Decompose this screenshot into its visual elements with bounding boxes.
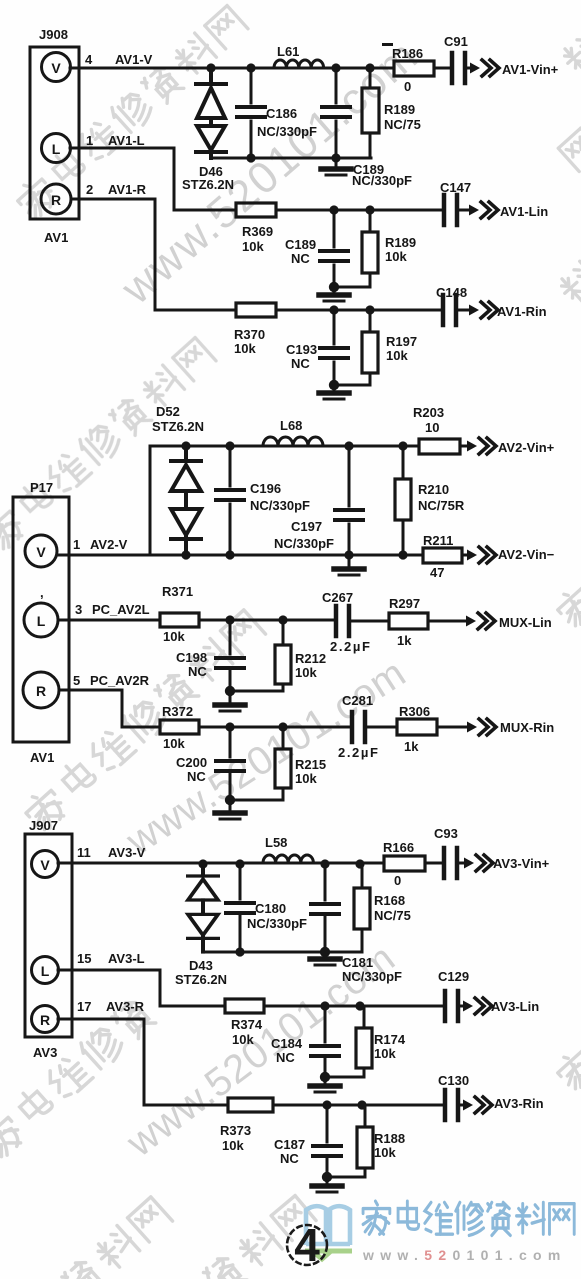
svg-text:10k: 10k — [374, 1145, 396, 1160]
arrow AV3-Lin — [463, 998, 492, 1014]
wire C181 branch — [324, 863, 327, 952]
resistor R189 NC/75 — [362, 88, 379, 133]
wire R189b branch — [334, 210, 370, 287]
ground AV1-R — [333, 385, 336, 390]
svg-text:3: 3 — [75, 602, 82, 617]
wire C200 branch — [229, 727, 232, 800]
svg-text:R203: R203 — [413, 405, 444, 420]
resistor R212 — [275, 645, 291, 684]
svg-text:AV3-L: AV3-L — [108, 951, 145, 966]
watermark hanzi run top-left — [13, 4, 249, 222]
svg-text:R371: R371 — [162, 584, 193, 599]
svg-text:0: 0 — [394, 873, 401, 888]
capacitor C148 — [443, 295, 456, 325]
svg-text:R373: R373 — [220, 1123, 251, 1138]
watermark hanzi right edge top — [556, 233, 581, 307]
svg-text:P17: P17 — [30, 480, 53, 495]
capacitor C180 — [226, 903, 254, 913]
wire C184 branch — [324, 1006, 327, 1077]
wire AV1-L pin1 — [70, 148, 236, 210]
scan speck dash — [382, 43, 393, 46]
resistor R168 — [354, 888, 370, 929]
svg-text:NC: NC — [291, 251, 310, 266]
svg-text:AV3-Vin+: AV3-Vin+ — [493, 856, 550, 871]
watermark hanzi right edge upper — [558, 128, 581, 171]
svg-text:AV2-Vin−: AV2-Vin− — [498, 547, 555, 562]
svg-text:C186: C186 — [266, 106, 297, 121]
junction dots PC_AV2L — [225, 615, 288, 696]
svg-text:C187: C187 — [274, 1137, 305, 1152]
svg-text:V: V — [36, 544, 46, 560]
logo book icon — [306, 1206, 350, 1245]
wire AV3-L line — [264, 1005, 464, 1008]
svg-text:L: L — [37, 613, 46, 629]
resistor R373 — [228, 1098, 273, 1112]
svg-text:C197: C197 — [291, 519, 322, 534]
resistor R189 10k — [362, 232, 378, 273]
arrow AV2-Vin- — [467, 547, 496, 563]
wire to arrow MUX-Rin — [437, 726, 468, 729]
svg-text:17: 17 — [77, 999, 91, 1014]
svg-text:R211: R211 — [423, 533, 453, 548]
svg-text:R186: R186 — [392, 46, 423, 61]
wire PC_AV2L pin3 — [58, 619, 160, 622]
svg-text:NC: NC — [291, 356, 310, 371]
wire C193 branch — [333, 310, 336, 385]
inductor L68 — [263, 437, 323, 446]
ground C197 — [348, 555, 351, 566]
resistor R369 — [236, 203, 276, 217]
svg-text:R188: R188 — [374, 1131, 405, 1146]
wire C189nc branch — [333, 210, 336, 287]
svg-text:C184: C184 — [271, 1036, 303, 1051]
svg-text:C130: C130 — [438, 1073, 469, 1088]
svg-text:10k: 10k — [385, 249, 407, 264]
capacitor C184 NC — [311, 1046, 339, 1056]
svg-text:R372: R372 — [162, 704, 193, 719]
wire to C91 — [434, 67, 471, 70]
svg-text:10k: 10k — [374, 1046, 396, 1061]
resistor R203 — [419, 439, 460, 454]
wire R174 branch — [325, 1006, 364, 1077]
watermark hanzi right edge low — [553, 1019, 581, 1093]
arrow AV3-Vin+ — [464, 855, 493, 871]
svg-text:,: , — [40, 585, 44, 600]
svg-text:NC/75R: NC/75R — [418, 498, 465, 513]
svg-text:D43: D43 — [189, 958, 213, 973]
svg-text:R197: R197 — [386, 334, 417, 349]
arrow AV1-Vin+ — [470, 60, 499, 76]
watermark hanzi partial bottom-left2 — [203, 1195, 317, 1279]
arrow MUX-Lin — [466, 613, 495, 629]
junction dots sec1 top — [206, 63, 374, 162]
svg-text:2: 2 — [86, 182, 93, 197]
svg-text:R: R — [51, 192, 61, 208]
wire C189 shunt branch — [335, 68, 338, 158]
wire C198 branch — [229, 620, 232, 691]
svg-text:NC/330pF: NC/330pF — [250, 498, 310, 513]
svg-text:www.520101.com: www.520101.com — [362, 1247, 567, 1263]
svg-text:C196: C196 — [250, 481, 281, 496]
watermark hanzi run left low — [0, 996, 156, 1161]
resistor R374 — [225, 999, 264, 1013]
connector J907 — [25, 834, 72, 1037]
svg-text:C267: C267 — [322, 590, 353, 605]
connector J908 — [30, 47, 79, 219]
capacitor C189 NC — [320, 251, 348, 261]
junction dots AV3-L — [320, 1001, 365, 1082]
svg-text:AV1-Vin+: AV1-Vin+ — [502, 62, 559, 77]
svg-text:J907: J907 — [29, 818, 58, 833]
wire AV1-L line — [276, 209, 470, 212]
svg-text:R166: R166 — [383, 840, 414, 855]
svg-text:AV1-Rin: AV1-Rin — [497, 304, 547, 319]
svg-text:R189: R189 — [384, 102, 415, 117]
zener D52 — [171, 446, 201, 556]
svg-text:NC: NC — [188, 664, 207, 679]
ground AV1-L — [333, 287, 336, 292]
svg-text:5: 5 — [73, 673, 80, 688]
capacitor C197 — [335, 510, 363, 520]
wire C197 branch — [348, 446, 351, 555]
svg-text:R215: R215 — [295, 757, 326, 772]
wire R197 branch — [334, 310, 370, 385]
svg-text:AV2-V: AV2-V — [90, 537, 128, 552]
svg-text:C281: C281 — [342, 693, 373, 708]
wire riser to top rail — [150, 446, 419, 555]
wire R212 branch — [230, 620, 283, 691]
wire R168 branch — [361, 863, 364, 952]
capacitor C186 — [237, 107, 265, 117]
svg-text:C91: C91 — [444, 34, 468, 49]
junction dots PC_AV2R — [225, 722, 288, 805]
wire AV3-L pin15 — [58, 970, 225, 1006]
svg-text:R369: R369 — [242, 224, 273, 239]
arrow AV1-Rin — [469, 302, 498, 318]
svg-text:10k: 10k — [163, 736, 185, 751]
capacitor C189 NC/330pF — [322, 107, 350, 117]
capacitor C91 — [452, 53, 465, 83]
svg-text:C180: C180 — [255, 901, 286, 916]
resistor R174 — [356, 1028, 372, 1068]
svg-text:V: V — [40, 857, 50, 873]
svg-text:10k: 10k — [295, 771, 317, 786]
arrow AV2-Vin+ — [467, 438, 496, 454]
resistor R188 — [357, 1127, 373, 1168]
svg-text:R189: R189 — [385, 235, 416, 250]
capacitor C281 — [352, 712, 365, 742]
inductor L61 — [274, 60, 324, 68]
svg-text:NC/330pF: NC/330pF — [274, 536, 334, 551]
capacitor C181 NC/330pF — [311, 904, 339, 914]
svg-text:L58: L58 — [265, 835, 287, 850]
svg-text:J908: J908 — [39, 27, 68, 42]
svg-text:L68: L68 — [280, 418, 302, 433]
zener D43 — [188, 864, 218, 952]
svg-text:R: R — [36, 683, 46, 699]
svg-text:10k: 10k — [163, 629, 185, 644]
ground AV3-R — [326, 1177, 329, 1182]
wire AV1-V pin4 — [70, 67, 394, 70]
wire C186 branch — [250, 68, 253, 158]
svg-text:R174: R174 — [374, 1032, 406, 1047]
resistor R372 — [160, 720, 199, 734]
watermark hanzi run mid (through P17) — [21, 608, 267, 834]
wire AV3-V pin11 — [58, 862, 384, 865]
junction dots sec2 — [181, 441, 407, 559]
ground sec3 — [324, 952, 327, 956]
watermark hanzi run bottom-left — [0, 1195, 173, 1279]
svg-text:10k: 10k — [232, 1032, 254, 1047]
svg-text:R: R — [40, 1012, 50, 1028]
wire R215 branch — [230, 727, 283, 800]
svg-text:PC_AV2R: PC_AV2R — [90, 673, 150, 688]
svg-text:STZ6.2N: STZ6.2N — [152, 419, 204, 434]
svg-text:1: 1 — [86, 133, 93, 148]
svg-text:10k: 10k — [234, 341, 256, 356]
resistor R166 — [384, 856, 425, 871]
svg-text:R306: R306 — [399, 704, 430, 719]
wire to arrow MUX-Lin — [428, 620, 467, 623]
svg-text:R210: R210 — [418, 482, 449, 497]
resistor R215 — [275, 749, 291, 788]
page number circle 4 — [287, 1225, 327, 1265]
svg-text:NC: NC — [187, 769, 206, 784]
svg-text:L: L — [52, 141, 61, 157]
svg-text:1k: 1k — [404, 739, 419, 754]
svg-text:PC_AV2L: PC_AV2L — [92, 602, 150, 617]
wire C196 branch — [229, 446, 232, 555]
capacitor C93 — [444, 848, 457, 878]
svg-text:C198: C198 — [176, 650, 207, 665]
junction dots AV1-R — [329, 305, 375, 390]
svg-text:R374: R374 — [231, 1017, 263, 1032]
watermark hanzi run left-mid upper — [0, 336, 217, 554]
capacitor C267 — [336, 606, 349, 636]
resistor R197 — [362, 332, 378, 373]
svg-text:AV1: AV1 — [44, 230, 68, 245]
wire C180 branch — [239, 863, 242, 952]
resistor R297 — [389, 613, 428, 629]
svg-text:4: 4 — [294, 1219, 320, 1271]
wire AV2-V pin1 / bottom rail sec2 — [57, 554, 423, 557]
svg-text:NC: NC — [276, 1050, 295, 1065]
ground AV3-L — [324, 1077, 327, 1082]
svg-text:15: 15 — [77, 951, 91, 966]
svg-text:AV1-L: AV1-L — [108, 133, 145, 148]
connector P17 — [13, 497, 69, 742]
svg-text:C181: C181 — [342, 955, 373, 970]
svg-text:NC: NC — [280, 1151, 299, 1166]
capacitor C130 — [445, 1090, 458, 1120]
svg-text:L61: L61 — [277, 44, 299, 59]
arrow AV3-Rin — [463, 1097, 492, 1113]
svg-text:C200: C200 — [176, 755, 207, 770]
svg-text:C189: C189 — [285, 237, 316, 252]
wire R189 branch — [369, 68, 372, 158]
svg-text:AV1-Lin: AV1-Lin — [500, 204, 548, 219]
ground sec1 top — [335, 158, 338, 166]
svg-text:NC/330pF: NC/330pF — [247, 916, 307, 931]
svg-text:0: 0 — [404, 79, 411, 94]
svg-text:V: V — [51, 60, 61, 76]
svg-text:C93: C93 — [434, 826, 458, 841]
capacitor C147 — [444, 195, 457, 225]
capacitor C193 NC — [320, 348, 348, 358]
wire to arrow AV2-Vin+ — [460, 445, 468, 448]
svg-text:AV1: AV1 — [30, 750, 54, 765]
logo green swoosh — [305, 1249, 352, 1254]
watermark hanzi top right corner — [559, 30, 581, 77]
svg-text:NC/330pF: NC/330pF — [257, 124, 317, 139]
junction dots sec3 — [198, 859, 364, 957]
svg-text:AV1-R: AV1-R — [108, 182, 147, 197]
wire C187 branch — [326, 1105, 329, 1177]
svg-text:NC/75: NC/75 — [374, 908, 411, 923]
resistor R186 — [394, 61, 434, 76]
svg-text:MUX-Lin: MUX-Lin — [499, 615, 552, 630]
capacitor C196 — [216, 490, 244, 500]
watermark hanzi right edge mid — [553, 556, 581, 630]
wire PC_AV2R line — [199, 726, 397, 729]
svg-text:STZ6.2N: STZ6.2N — [175, 972, 227, 987]
resistor R370 — [236, 303, 276, 317]
wire AV3-R pin17 — [58, 1019, 228, 1105]
svg-text:AV3-V: AV3-V — [108, 845, 146, 860]
arrow MUX-Rin — [467, 719, 496, 735]
wire R188 branch — [327, 1105, 365, 1177]
wire to C93 — [425, 862, 465, 865]
resistor R211 — [423, 548, 462, 563]
svg-text:C147: C147 — [440, 180, 471, 195]
svg-text:NC/330pF: NC/330pF — [342, 969, 402, 984]
svg-text:11: 11 — [77, 845, 91, 860]
svg-text:2.2µF: 2.2µF — [330, 639, 372, 654]
wire to arrow AV2-Vin- — [462, 554, 468, 557]
svg-text:10k: 10k — [222, 1138, 244, 1153]
svg-text:MUX-Rin: MUX-Rin — [500, 720, 554, 735]
junction dots AV3-R — [322, 1100, 367, 1182]
svg-text:D52: D52 — [156, 404, 180, 419]
svg-text:R168: R168 — [374, 893, 405, 908]
arrow AV1-Lin — [469, 202, 498, 218]
logo hanzi text 家电维修资料网 — [363, 1201, 574, 1235]
wire bottom rail sec1 — [211, 157, 371, 160]
svg-text:10k: 10k — [242, 239, 264, 254]
capacitor C200 NC — [216, 761, 244, 771]
svg-text:NC/330pF: NC/330pF — [352, 173, 412, 188]
capacitor C187 NC — [313, 1146, 341, 1156]
wire bottom rail sec3 — [203, 951, 362, 954]
junction dots AV1-L — [329, 205, 375, 292]
svg-text:AV2-Vin+: AV2-Vin+ — [498, 440, 555, 455]
ground C198 — [229, 691, 232, 702]
svg-text:AV3-Lin: AV3-Lin — [491, 999, 539, 1014]
svg-text:2.2µF: 2.2µF — [338, 745, 380, 760]
capacitor C129 — [445, 991, 458, 1021]
svg-text:R370: R370 — [234, 327, 265, 342]
wire PC_AV2R pin5 — [59, 690, 160, 727]
svg-text:1: 1 — [73, 537, 80, 552]
svg-text:R297: R297 — [389, 596, 420, 611]
inductor L58 — [263, 855, 313, 863]
resistor R306 — [397, 719, 437, 735]
wire AV1-R pin2 — [71, 199, 236, 310]
ground C200 — [229, 800, 232, 810]
wire AV1-R line — [276, 309, 470, 312]
wire PC_AV2L line — [199, 620, 389, 621]
resistor R210 — [395, 479, 411, 520]
svg-text:L: L — [41, 963, 50, 979]
svg-text:C148: C148 — [436, 285, 467, 300]
svg-text:47: 47 — [430, 565, 444, 580]
svg-text:AV3-R: AV3-R — [106, 999, 145, 1014]
svg-text:C193: C193 — [286, 342, 317, 357]
svg-text:C129: C129 — [438, 969, 469, 984]
svg-text:NC/75: NC/75 — [384, 117, 421, 132]
zener D46 — [196, 68, 226, 158]
capacitor C198 NC — [216, 658, 244, 668]
svg-text:10k: 10k — [295, 665, 317, 680]
svg-text:10k: 10k — [386, 348, 408, 363]
svg-text:R212: R212 — [295, 651, 326, 666]
svg-text:AV3: AV3 — [33, 1045, 57, 1060]
wire AV3-R line — [273, 1104, 464, 1107]
svg-text:10: 10 — [425, 420, 439, 435]
wire R210 branch — [402, 446, 405, 555]
svg-text:1k: 1k — [397, 633, 412, 648]
svg-text:STZ6.2N: STZ6.2N — [182, 177, 234, 192]
svg-text:4: 4 — [85, 52, 93, 67]
svg-text:AV1-V: AV1-V — [115, 52, 153, 67]
resistor R371 — [160, 613, 199, 627]
svg-text:AV3-Rin: AV3-Rin — [494, 1096, 544, 1111]
